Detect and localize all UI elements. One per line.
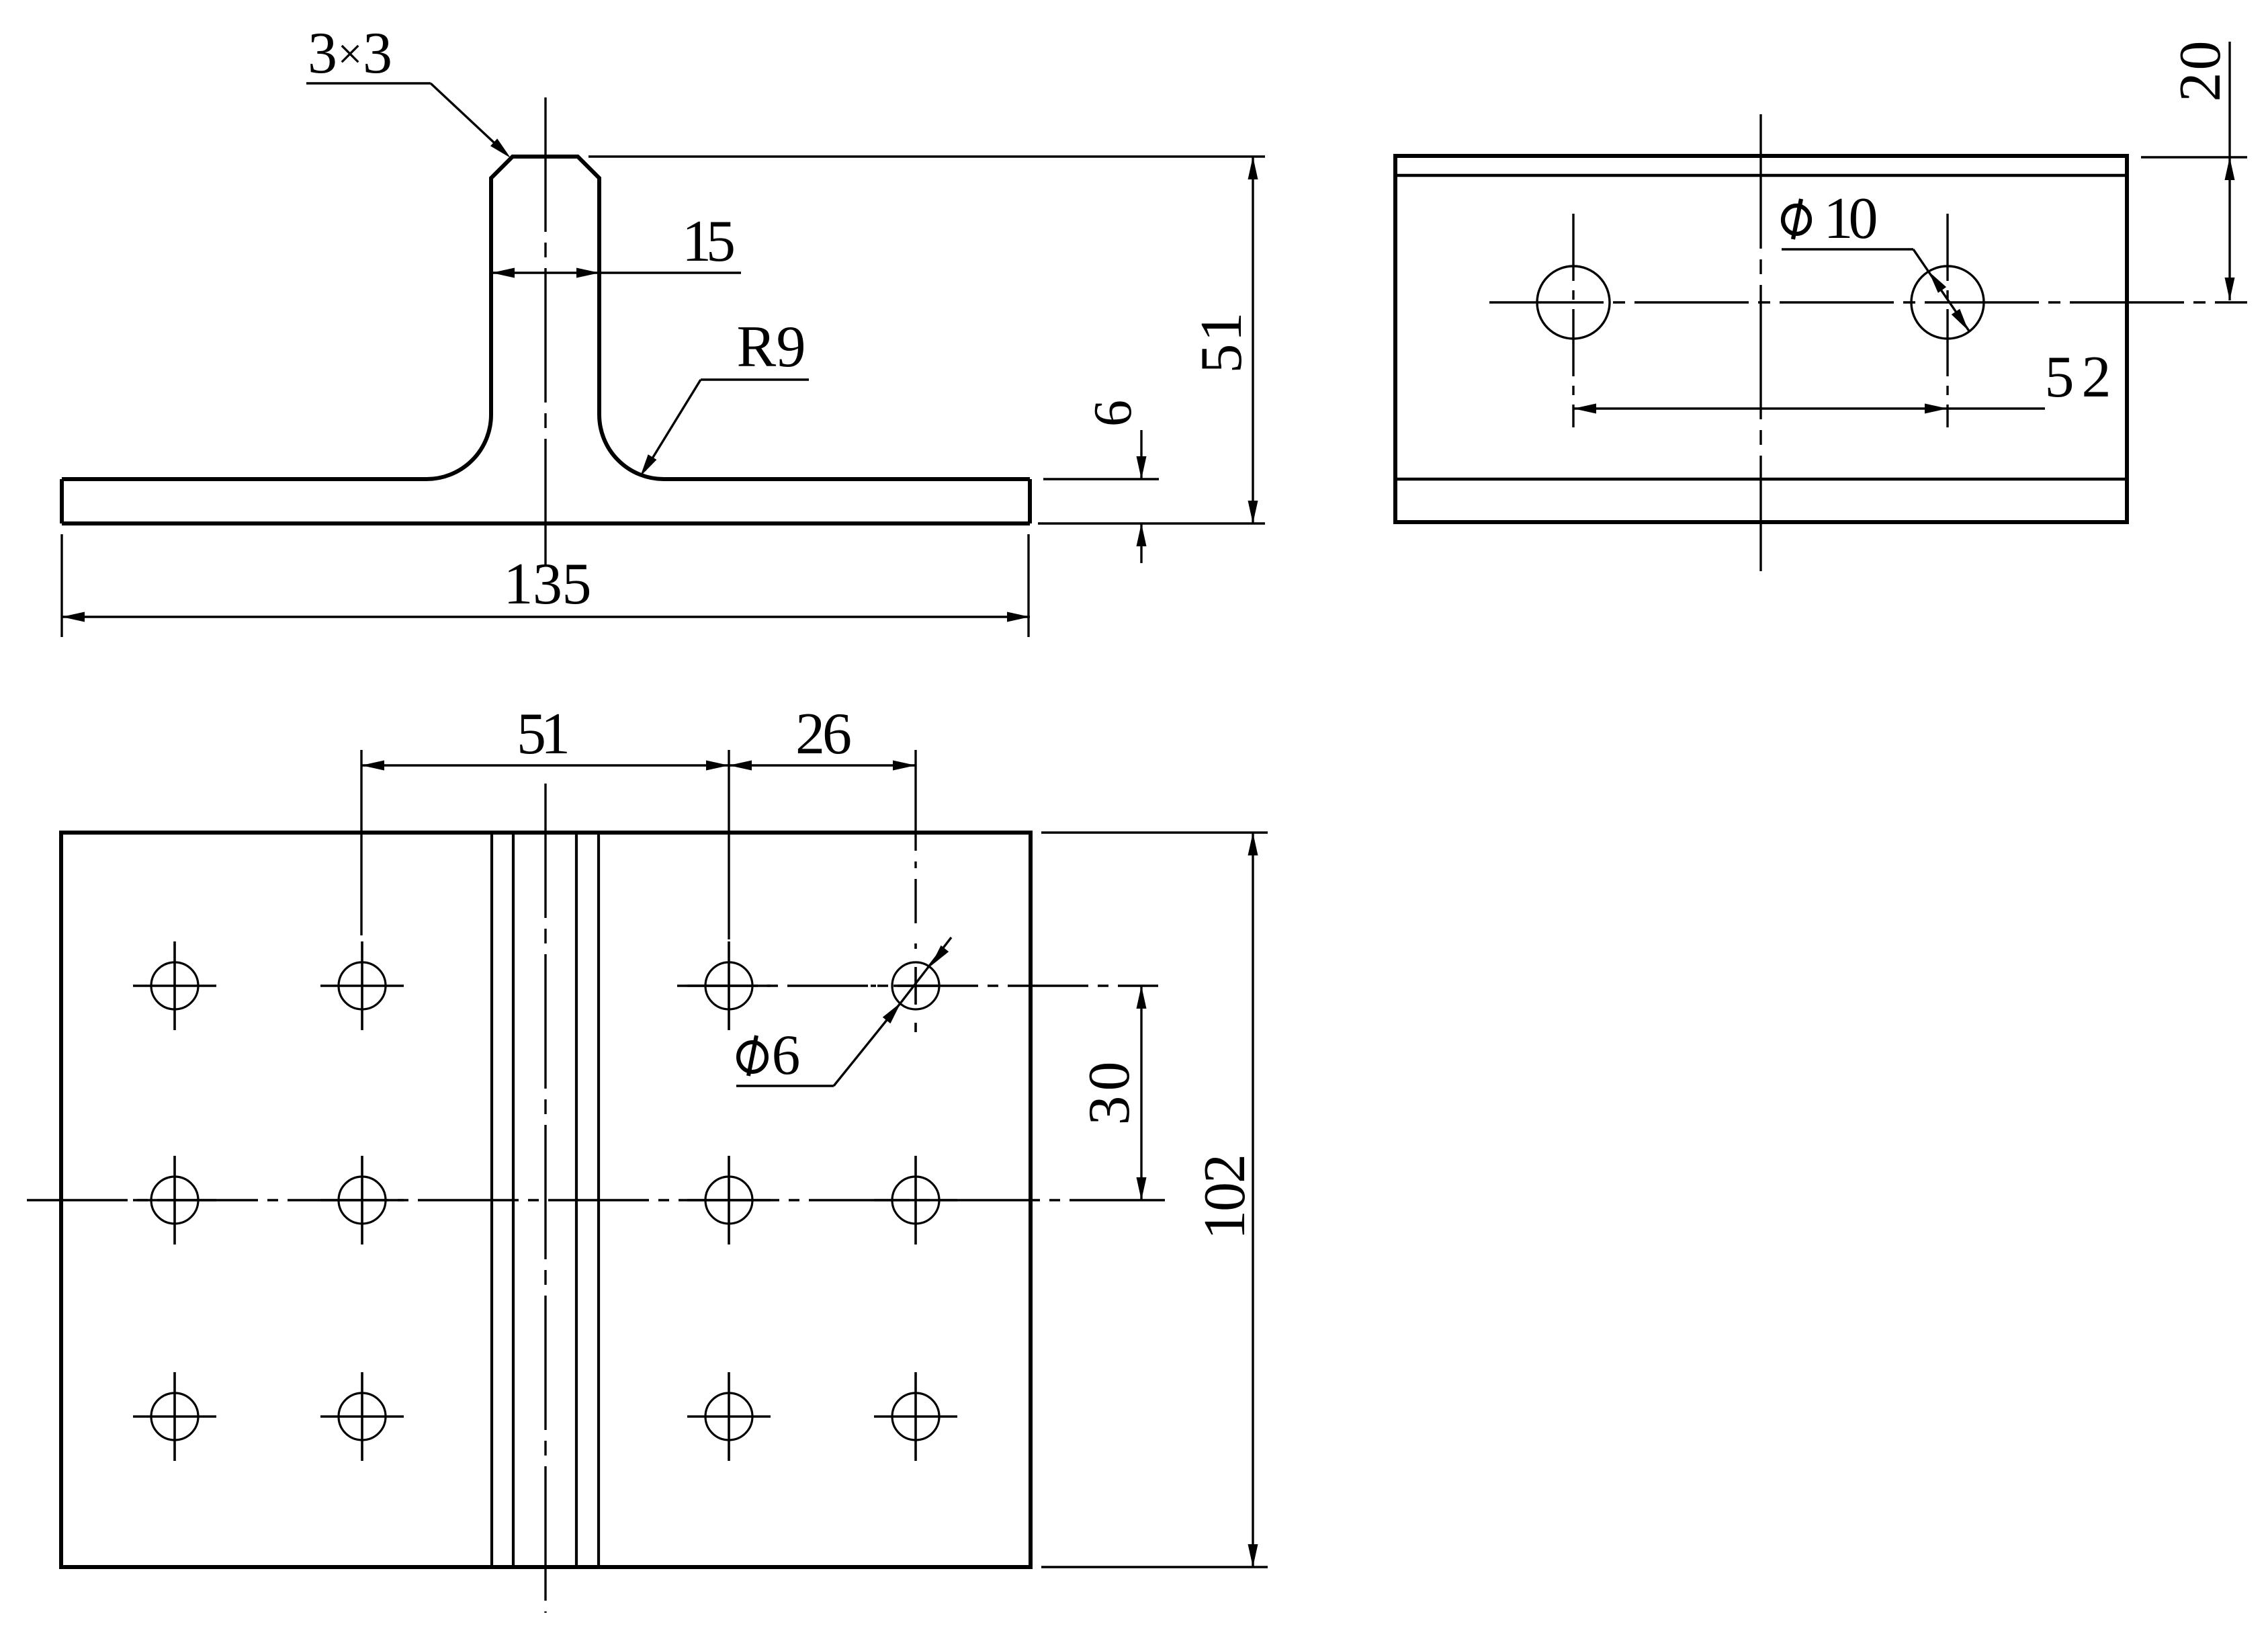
label phi6 lower arrowhead — [883, 1003, 901, 1023]
side view outline rectangle — [1395, 156, 2127, 522]
label phi10 entry arrowhead — [1929, 271, 1946, 293]
dim 30 top arrowhead — [1137, 986, 1147, 1009]
top view vertical centerline — [544, 784, 546, 1613]
label phi10 exit arrowhead — [1952, 309, 1968, 331]
hole phi6 row3 col1 circle — [151, 1393, 198, 1440]
label 3x3 leader arrowhead — [490, 138, 511, 158]
dim 52 left arrowhead — [1573, 404, 1596, 414]
dim 51/26 extension line col3 — [728, 750, 730, 939]
dim 135 line — [62, 616, 1030, 618]
hole phi6 row1 col4 centermark — [871, 943, 938, 1032]
front view plate outline — [62, 479, 1030, 523]
dim 102 bottom arrowhead — [1248, 1544, 1258, 1567]
dim 135 right extension line — [1027, 534, 1029, 637]
dim 51 bottom arrowhead — [1248, 501, 1258, 523]
hole phi6 row2 col3 crosshair — [687, 1156, 771, 1245]
top view rib right edge line — [597, 833, 600, 1567]
hole phi6 row3 col2 crosshair — [320, 1372, 404, 1461]
label 3x3 leader diagonal — [431, 83, 503, 151]
hole phi6 row2 col1 crosshair — [133, 1156, 216, 1245]
svg-text:26: 26 — [795, 702, 852, 767]
hole phi6 row1 col1 circle — [151, 962, 198, 1009]
hole phi6 row2 col2 crosshair — [320, 1156, 404, 1245]
front view rib outline with 3x3 chamfer — [491, 157, 599, 415]
dim 51 right arrowhead topview — [706, 761, 729, 771]
dim 20 upper arrowhead — [2225, 157, 2235, 180]
dim 15 line — [492, 271, 741, 273]
label phi10 leader underline — [1782, 248, 1913, 250]
label phi6 upper arrowhead — [930, 945, 949, 966]
label R9 leader underline — [701, 378, 809, 380]
dim 135 left arrowhead — [62, 612, 85, 622]
svg-text:R9: R9 — [737, 314, 806, 380]
svg-text:15: 15 — [682, 209, 736, 274]
hole phi6 row1 col2 crosshair — [320, 941, 404, 1030]
hole phi6 row1 col3 circle — [705, 962, 752, 1009]
hole phi6 row2 col1 circle — [151, 1177, 198, 1224]
top view rib top-face right edge line — [575, 833, 578, 1567]
label phi6 leader line through hole — [901, 937, 951, 1003]
dim 30 bottom arrowhead — [1137, 1177, 1147, 1200]
top view first row centerline — [677, 984, 1158, 986]
hole phi6 row1 col1 crosshair — [133, 941, 216, 1030]
dim 102 bottom extension line — [1041, 1566, 1268, 1568]
top view rib left edge line — [490, 833, 493, 1567]
dim 51 bottom extension line — [1038, 522, 1265, 524]
hole phi6 row1 col3 crosshair — [687, 941, 771, 1030]
top view middle row centerline — [27, 1199, 1165, 1201]
dim 51 left arrowhead topview — [361, 761, 384, 771]
dim 20 line — [2228, 42, 2230, 300]
label phi6 diameter symbol — [738, 1036, 767, 1076]
svg-text:6: 6 — [772, 1023, 801, 1087]
top view outline rectangle — [61, 833, 1031, 1567]
hole phi10 left vertical centerline — [1572, 214, 1574, 427]
hole phi6 row2 col4 circle — [892, 1177, 939, 1224]
svg-text:3: 3 — [308, 21, 337, 86]
dim 15 left arrowhead — [492, 268, 515, 278]
dim 51 26 shared line — [361, 764, 916, 766]
hole phi10 left circle — [1537, 266, 1610, 339]
svg-text:102: 102 — [1192, 1154, 1258, 1240]
label phi6 leader diagonal outer — [834, 1003, 901, 1086]
dim 6 lower arrowhead — [1137, 523, 1147, 546]
dim 52 line — [1573, 407, 2045, 409]
front view rib centerline — [544, 97, 546, 564]
side view vertical centerline — [1759, 114, 1761, 571]
side view plate top edge line — [1395, 478, 2127, 481]
dim 51/26 extension line col2 — [360, 750, 362, 935]
dim 51 top extension line — [588, 155, 1265, 157]
hole phi10 right vertical centerline — [1946, 214, 1948, 427]
svg-text:10: 10 — [1824, 186, 1878, 251]
hole phi6 row3 col4 crosshair — [874, 1372, 957, 1461]
dim 26 left arrowhead — [729, 761, 752, 771]
hole phi6 row1 col4 circle — [892, 962, 939, 1009]
label phi10 diameter symbol — [1783, 199, 1810, 239]
dim 102 top extension line — [1041, 831, 1268, 833]
svg-text:6: 6 — [1084, 400, 1143, 427]
dim 6 lower leg — [1140, 523, 1142, 563]
dim 102 line — [1252, 833, 1254, 1567]
dim 51 line — [1252, 157, 1254, 523]
dim 30 line — [1140, 986, 1142, 1200]
label R9 leader diagonal — [645, 380, 701, 470]
dim 52 right arrowhead — [1925, 404, 1948, 414]
front view right fillet R9 — [599, 415, 664, 479]
dim 20 top extension line — [2141, 156, 2247, 158]
svg-text:×: × — [337, 30, 362, 79]
svg-text:135: 135 — [504, 552, 592, 617]
hole phi6 row2 col4 crosshair — [874, 1156, 957, 1245]
label phi10 leader line through hole — [1913, 249, 1970, 332]
dim 135 left extension line — [60, 534, 62, 637]
hole phi6 row3 col3 crosshair — [687, 1372, 771, 1461]
top view rib top-face left edge line — [512, 833, 515, 1567]
hole phi6 row3 col3 circle — [705, 1393, 752, 1440]
dim 6 upper arrowhead — [1137, 456, 1147, 479]
dim 51/26 extension line col4 — [914, 750, 916, 923]
dim 26 right arrowhead — [893, 761, 916, 771]
label 3x3 leader underline — [306, 82, 431, 84]
dim 15 right arrowhead — [576, 268, 599, 278]
hole phi6 row3 col1 crosshair — [133, 1372, 216, 1461]
dim 6 upper leg — [1140, 430, 1142, 479]
label R9 leader arrowhead — [640, 454, 656, 476]
hole phi6 row2 col3 circle — [705, 1177, 752, 1224]
dim 102 top arrowhead — [1248, 833, 1258, 855]
hole phi6 row2 col2 circle — [339, 1177, 386, 1224]
hole phi6 row3 col4 circle — [892, 1393, 939, 1440]
label phi6 leader underline — [736, 1085, 834, 1087]
hole phi6 row1 col2 circle — [339, 962, 386, 1009]
dim 20 lower arrowhead — [2225, 278, 2235, 300]
dim 51 top arrowhead — [1248, 157, 1258, 179]
front view left fillet R9 — [427, 415, 491, 479]
hole phi10 right circle — [1911, 266, 1984, 339]
side view holes horizontal centerline — [1489, 301, 2247, 303]
dim 6 top extension line — [1043, 478, 1159, 480]
dim 135 right arrowhead — [1007, 612, 1030, 622]
side view chamfer edge line — [1395, 174, 2127, 177]
hole phi6 row3 col2 circle — [339, 1393, 386, 1440]
svg-text:3: 3 — [363, 21, 392, 86]
svg-text:51: 51 — [517, 702, 570, 767]
